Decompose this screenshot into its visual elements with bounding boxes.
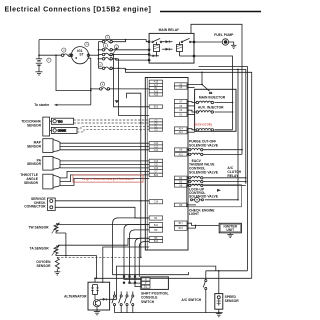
- ECU pin B1: [149, 87, 162, 91]
- ground shield drain: [115, 100, 119, 103]
- wire injector control drop: [187, 72, 202, 84]
- connector ref above fuse F7: [100, 82, 104, 86]
- wire alternator to ground: [96, 307, 98, 312]
- tandem valve solenoid SV4: [189, 180, 203, 183]
- EACV solenoid SV2: [189, 153, 203, 156]
- svg-text:RELAY: RELAY: [227, 174, 239, 178]
- wire F2 output to battery feed: [112, 40, 125, 42]
- wire F6 output to H-rails: [112, 67, 125, 69]
- ECU pin B9: [149, 228, 162, 233]
- ECU pin C16: [149, 166, 162, 170]
- wire hot feed loop: [191, 24, 242, 154]
- shield drain wire: [126, 93, 140, 257]
- wire battery to fuse F1: [39, 54, 61, 56]
- main relay RY1 box: [149, 33, 194, 63]
- fuse F6: [102, 67, 112, 70]
- connector TP mark: [209, 92, 212, 93]
- svg-text:brąz z dwoma szarymi kreskami: brąz z dwoma szarymi kreskami: [82, 177, 133, 181]
- wire B11 to shift switch N: [124, 225, 149, 280]
- ECU pin A11: [174, 153, 187, 157]
- wire stub bus to F5: [98, 58, 102, 60]
- TDC/CRANK sensor housing: [43, 117, 52, 136]
- svg-text:Electrical Connections [D15B2: Electrical Connections [D15B2 engine]: [5, 6, 152, 13]
- wire fuse F7 to ECU: [110, 88, 150, 90]
- wire stub bus to F4: [98, 54, 102, 56]
- injector harness box: [195, 89, 236, 131]
- svg-text:UNIT: UNIT: [226, 228, 234, 232]
- wire F3 output to main relay terminal 2: [112, 49, 149, 51]
- relay terminal T6: [193, 55, 195, 57]
- svg-text:TA SENSOR: TA SENSOR: [30, 246, 50, 250]
- oxygen sensor O2: [55, 258, 59, 272]
- svg-text:B17: B17: [179, 222, 184, 225]
- wire TDC shielded pair: [74, 119, 150, 121]
- ECU pin B20: [149, 173, 162, 177]
- fuel pump motor M1: [222, 39, 228, 45]
- ECU pin C10: [149, 142, 162, 146]
- ECU pin A1: [174, 112, 187, 116]
- svg-text:A12: A12: [179, 131, 184, 134]
- wire relay to fuel pump: [194, 41, 222, 43]
- wire throttle signal 1: [60, 171, 149, 178]
- ground battery: [36, 72, 43, 75]
- wire TA signal: [58, 238, 149, 245]
- wire B3 stub: [187, 181, 189, 183]
- wire switch IG1 output to fuse bus: [90, 54, 99, 56]
- ECU pin C7: [149, 170, 162, 174]
- ECU pin A5: [174, 104, 187, 108]
- svg-text:TDC: TDC: [58, 120, 63, 123]
- arrow marker: [217, 189, 221, 192]
- wire A6 stub: [187, 149, 189, 151]
- wire A7 to main injector: [187, 101, 196, 104]
- wire MAP signal 2: [60, 146, 149, 148]
- wire To starter arrow: [54, 104, 91, 106]
- svg-text:LIGHT: LIGHT: [189, 212, 199, 216]
- connector contact pair at x=129.5: [128, 275, 130, 277]
- PA sensor: [43, 156, 60, 170]
- wire battery top feed: [39, 40, 149, 42]
- svg-text:SENSOR: SENSOR: [27, 144, 42, 148]
- alternator box: [88, 282, 110, 310]
- svg-text:CRANK: CRANK: [58, 130, 67, 133]
- svg-text:A19: A19: [154, 94, 159, 97]
- fuse F2: [102, 40, 112, 43]
- ECU pin A17: [149, 83, 162, 87]
- ECU pin A7: [174, 99, 187, 103]
- relay contact K2: [181, 38, 194, 42]
- wire F5 to ECU C area: [119, 59, 150, 116]
- relay internal wire: [180, 55, 195, 57]
- wire igniter to ground: [229, 233, 231, 235]
- wire rail H0: [199, 67, 248, 271]
- relay diode D1: [162, 40, 173, 43]
- MAP sensor: [43, 139, 60, 153]
- svg-text:N: N: [145, 279, 147, 282]
- wire F5 branch to relay terminal 4: [116, 59, 149, 60]
- shift pin N: [142, 278, 151, 282]
- wire TW return: [56, 232, 66, 234]
- fuse F3: [102, 49, 112, 52]
- svg-text:ALTERNATOR: ALTERNATOR: [64, 294, 87, 298]
- wire PA signal 3: [60, 167, 149, 169]
- ECU pin B10: [149, 240, 162, 244]
- shift switch leg 3: [124, 292, 128, 313]
- ground oxygen sensor: [54, 272, 60, 275]
- CRANK sensor: [51, 127, 77, 133]
- wire PA signal 1: [60, 160, 149, 162]
- connector ref above fuse F1: [62, 48, 66, 52]
- wire throttle signal 2: [60, 175, 149, 182]
- svg-text:A/C SWITCH: A/C SWITCH: [181, 298, 201, 302]
- ECU pin A19: [149, 93, 162, 97]
- svg-text:B20: B20: [154, 174, 159, 177]
- ECU pin C1: [149, 125, 162, 129]
- relay terminal T5: [193, 41, 195, 43]
- shift pin DL: [142, 285, 151, 289]
- connector ref above switch: [85, 42, 89, 46]
- TW sensor thermistor: [52, 223, 60, 234]
- wire resistor link: [202, 84, 210, 91]
- igniter unit box: [219, 223, 241, 233]
- service check connector: [48, 198, 56, 211]
- svg-text:SENSOR: SENSOR: [24, 181, 39, 185]
- ECU pin A8: [174, 184, 187, 188]
- wire service check 2: [55, 207, 149, 218]
- connector ref above fuse F6: [98, 63, 102, 67]
- wire stub bus to F3: [98, 49, 102, 51]
- wire F4 output to main relay terminal 3: [112, 54, 149, 56]
- ECU pin B6: [149, 237, 162, 241]
- svg-text:SENSOR: SENSOR: [27, 162, 42, 166]
- svg-text:B10: B10: [154, 240, 159, 243]
- wire B2 stub: [187, 177, 189, 179]
- fuse F4: [102, 53, 112, 56]
- wire CRANK shielded pair: [77, 127, 149, 129]
- svg-text:ST: ST: [79, 53, 83, 57]
- fuse F1: [61, 54, 71, 57]
- ECU pin A3: [174, 108, 187, 112]
- wire MAP signal 3: [60, 149, 149, 151]
- battery BAT: [36, 40, 42, 72]
- wire alternator lamp rail: [110, 266, 216, 299]
- svg-text:To starter: To starter: [34, 103, 50, 107]
- wire A14 to injector resistor: [187, 129, 196, 130]
- wire sensor return bus: [66, 233, 97, 278]
- ECU pin C13: [149, 159, 162, 163]
- ECU pin A12: [174, 130, 187, 134]
- purge cut-off solenoid SV1: [189, 148, 203, 151]
- ignition switch SW1: [70, 47, 89, 64]
- svg-text:CONNECTOR: CONNECTOR: [24, 205, 46, 209]
- wire bottom feed: [206, 270, 248, 272]
- wire long return rail: [95, 277, 252, 279]
- svg-text:AUX. INJECTOR: AUX. INJECTOR: [198, 106, 224, 110]
- A/C switch SW2: [203, 271, 207, 313]
- wire oxygen signal shielded: [57, 256, 141, 258]
- speed sensor SS1: [215, 271, 223, 313]
- ECU pin A16: [149, 90, 162, 94]
- ECU pin B3: [174, 180, 187, 184]
- A/C clutch solenoid SV5: [189, 184, 203, 187]
- svg-text:zielono/żółty: zielono/żółty: [194, 122, 213, 126]
- ECU pin B11: [149, 223, 162, 228]
- svg-text:FUEL PUMP: FUEL PUMP: [214, 33, 234, 37]
- svg-text:MAIN INJECTOR: MAIN INJECTOR: [199, 96, 226, 100]
- svg-text:SENSOR: SENSOR: [27, 123, 42, 127]
- ground alternator: [94, 312, 100, 315]
- ECU pin C2: [149, 119, 162, 123]
- wire A1 stub: [187, 114, 195, 116]
- svg-text:SWITCH: SWITCH: [141, 300, 155, 304]
- wire B5 stub: [187, 204, 196, 206]
- alternator transistor Q1: [93, 300, 100, 307]
- ECU pin A2: [174, 83, 187, 87]
- ECU pin C18: [149, 200, 162, 204]
- wire TW signal: [58, 224, 149, 226]
- ECU pin A6: [174, 148, 187, 152]
- ECU pin B15: [174, 226, 187, 230]
- wire aux injector feed: [214, 111, 232, 113]
- relay terminal T1: [148, 41, 150, 43]
- connector contact pair at x=135: [134, 275, 136, 277]
- wire To starter drop: [88, 58, 91, 105]
- wire B9 to shift switch P: [130, 230, 150, 283]
- wire alternator top stub: [94, 278, 96, 282]
- wire MAP signal 1: [60, 142, 149, 144]
- wire B15 to igniter: [187, 226, 196, 229]
- shift position console switch box: [141, 277, 169, 290]
- svg-text:SOLENOID VALVE: SOLENOID VALVE: [189, 143, 219, 147]
- wire stub bus to F2: [98, 41, 102, 43]
- wire F4 to ECU B13: [114, 55, 150, 107]
- wire branch loop: [56, 55, 91, 90]
- wire B10 to shift box: [139, 242, 149, 277]
- lock-up control block box: [187, 185, 242, 207]
- throttle angle sensor: [43, 174, 60, 189]
- wire B6 to shift switch DL: [135, 238, 149, 287]
- ground speed sensor: [216, 314, 222, 317]
- wire fuel pump to ground: [229, 42, 234, 45]
- wire A8 stub: [187, 184, 189, 186]
- svg-text:SENSOR: SENSOR: [36, 264, 51, 268]
- svg-text:B15: B15: [179, 227, 184, 230]
- wire rail H2: [126, 69, 252, 278]
- wire PA signal 2: [60, 163, 149, 165]
- ECU pin B4: [149, 216, 162, 220]
- wire SV3 feed: [203, 177, 246, 179]
- aux injector INJ2: [196, 111, 213, 114]
- ECU pin B5: [174, 203, 187, 207]
- wire SV4 feed: [203, 181, 246, 183]
- wire SV5 feed: [203, 184, 246, 186]
- wire A4 stub: [187, 87, 195, 89]
- connector ref above fuse F2: [106, 35, 110, 39]
- svg-text:SENSOR: SENSOR: [225, 299, 240, 303]
- connector ref right of fuse F3: [114, 45, 118, 49]
- ECU pin C11: [149, 145, 162, 149]
- main injector INJ1: [196, 101, 213, 104]
- relay terminal T3: [148, 54, 150, 56]
- wire hot feed to ECU backup: [91, 88, 100, 90]
- ECU pin B13: [149, 105, 162, 109]
- wire fuse bus vertical: [97, 42, 99, 69]
- TDC sensor: [51, 118, 73, 124]
- wire relay output rail V1: [194, 56, 233, 130]
- fuse F5: [102, 58, 112, 61]
- relay coil L2: [177, 42, 183, 56]
- ECU pin B17: [174, 221, 187, 225]
- ECU pin A14: [174, 127, 187, 131]
- wire throttle signal 3: [60, 178, 149, 185]
- node battery junction: [38, 54, 40, 56]
- lock-up solenoid SV6: [191, 197, 204, 202]
- connector contact pair at x=124: [123, 275, 125, 277]
- wire A5 stub: [187, 105, 195, 107]
- wire rail V238 check engine feed: [205, 69, 238, 199]
- svg-text:SOLENOID VALVE: SOLENOID VALVE: [189, 171, 219, 175]
- wire A11 stub: [187, 153, 189, 155]
- wire rail H1: [126, 68, 246, 183]
- wire B17 to igniter: [187, 223, 219, 225]
- ECU connector box: [145, 78, 188, 251]
- TA sensor thermistor: [52, 245, 60, 256]
- relay terminal T4: [148, 59, 150, 61]
- alternator diode pair: [91, 285, 98, 300]
- svg-text:C14: C14: [154, 149, 159, 152]
- svg-text:C18: C18: [154, 201, 159, 204]
- svg-text:MAIN RELAY: MAIN RELAY: [159, 28, 180, 32]
- wire ECU to alternator field: [103, 247, 149, 283]
- wire main injector feed: [214, 102, 232, 104]
- connector ref above fuse F3: [103, 44, 107, 48]
- wire TA return: [56, 254, 66, 256]
- alternator diode D4: [99, 298, 109, 301]
- wire EACV feed: [203, 153, 242, 155]
- wire F5 output: [112, 58, 118, 60]
- shift switch leg 1: [112, 292, 116, 313]
- ECU pin C9: [149, 163, 162, 167]
- title rule line: [160, 11, 261, 13]
- connector ref near battery: [47, 58, 51, 62]
- ECU pin C3: [149, 128, 162, 132]
- fuse F7: [100, 88, 110, 91]
- wire stub bus to F6: [98, 67, 102, 69]
- ECU pin B2: [174, 176, 187, 180]
- ECU pin A4: [174, 86, 187, 90]
- ground fuel pump: [231, 45, 236, 48]
- shift switch leg 4: [130, 292, 134, 313]
- relay contact K1: [152, 38, 162, 42]
- relay diode D3: [150, 55, 159, 58]
- wire B4 to bottom rail: [113, 218, 189, 275]
- ECU pin A15: [149, 80, 162, 84]
- switch interlock arrow: [112, 48, 117, 55]
- relay diode D2: [162, 48, 173, 51]
- injector resistor coil: [196, 128, 213, 131]
- shift switch leg 2: [119, 292, 123, 313]
- wire fuse F1 to ignition switch: [70, 54, 71, 56]
- svg-text:B13: B13: [154, 106, 159, 109]
- svg-text:TW SENSOR: TW SENSOR: [28, 226, 49, 230]
- wire purge solenoid feed: [203, 149, 242, 151]
- wire injector resistor feed: [214, 129, 232, 131]
- tandem valve solenoid SV3: [189, 176, 203, 179]
- relay coil L1: [154, 42, 160, 56]
- svg-text:B11: B11: [154, 224, 159, 227]
- ECU inner edge line: [146, 78, 148, 251]
- relay terminal T2: [148, 49, 150, 51]
- wire A3 to aux injector: [187, 110, 196, 112]
- wire bottom bus: [115, 312, 223, 314]
- svg-text:A11: A11: [179, 153, 184, 156]
- red note box wire colour: [73, 175, 143, 182]
- wire A12 stub: [187, 131, 195, 133]
- ECU pin C4: [149, 122, 162, 126]
- ground igniter: [227, 234, 233, 237]
- ECU pin C14: [149, 148, 162, 152]
- shift pin P: [142, 282, 151, 286]
- svg-text:SOLENOID VALVE: SOLENOID VALVE: [189, 195, 219, 199]
- wire service check 1: [55, 200, 149, 202]
